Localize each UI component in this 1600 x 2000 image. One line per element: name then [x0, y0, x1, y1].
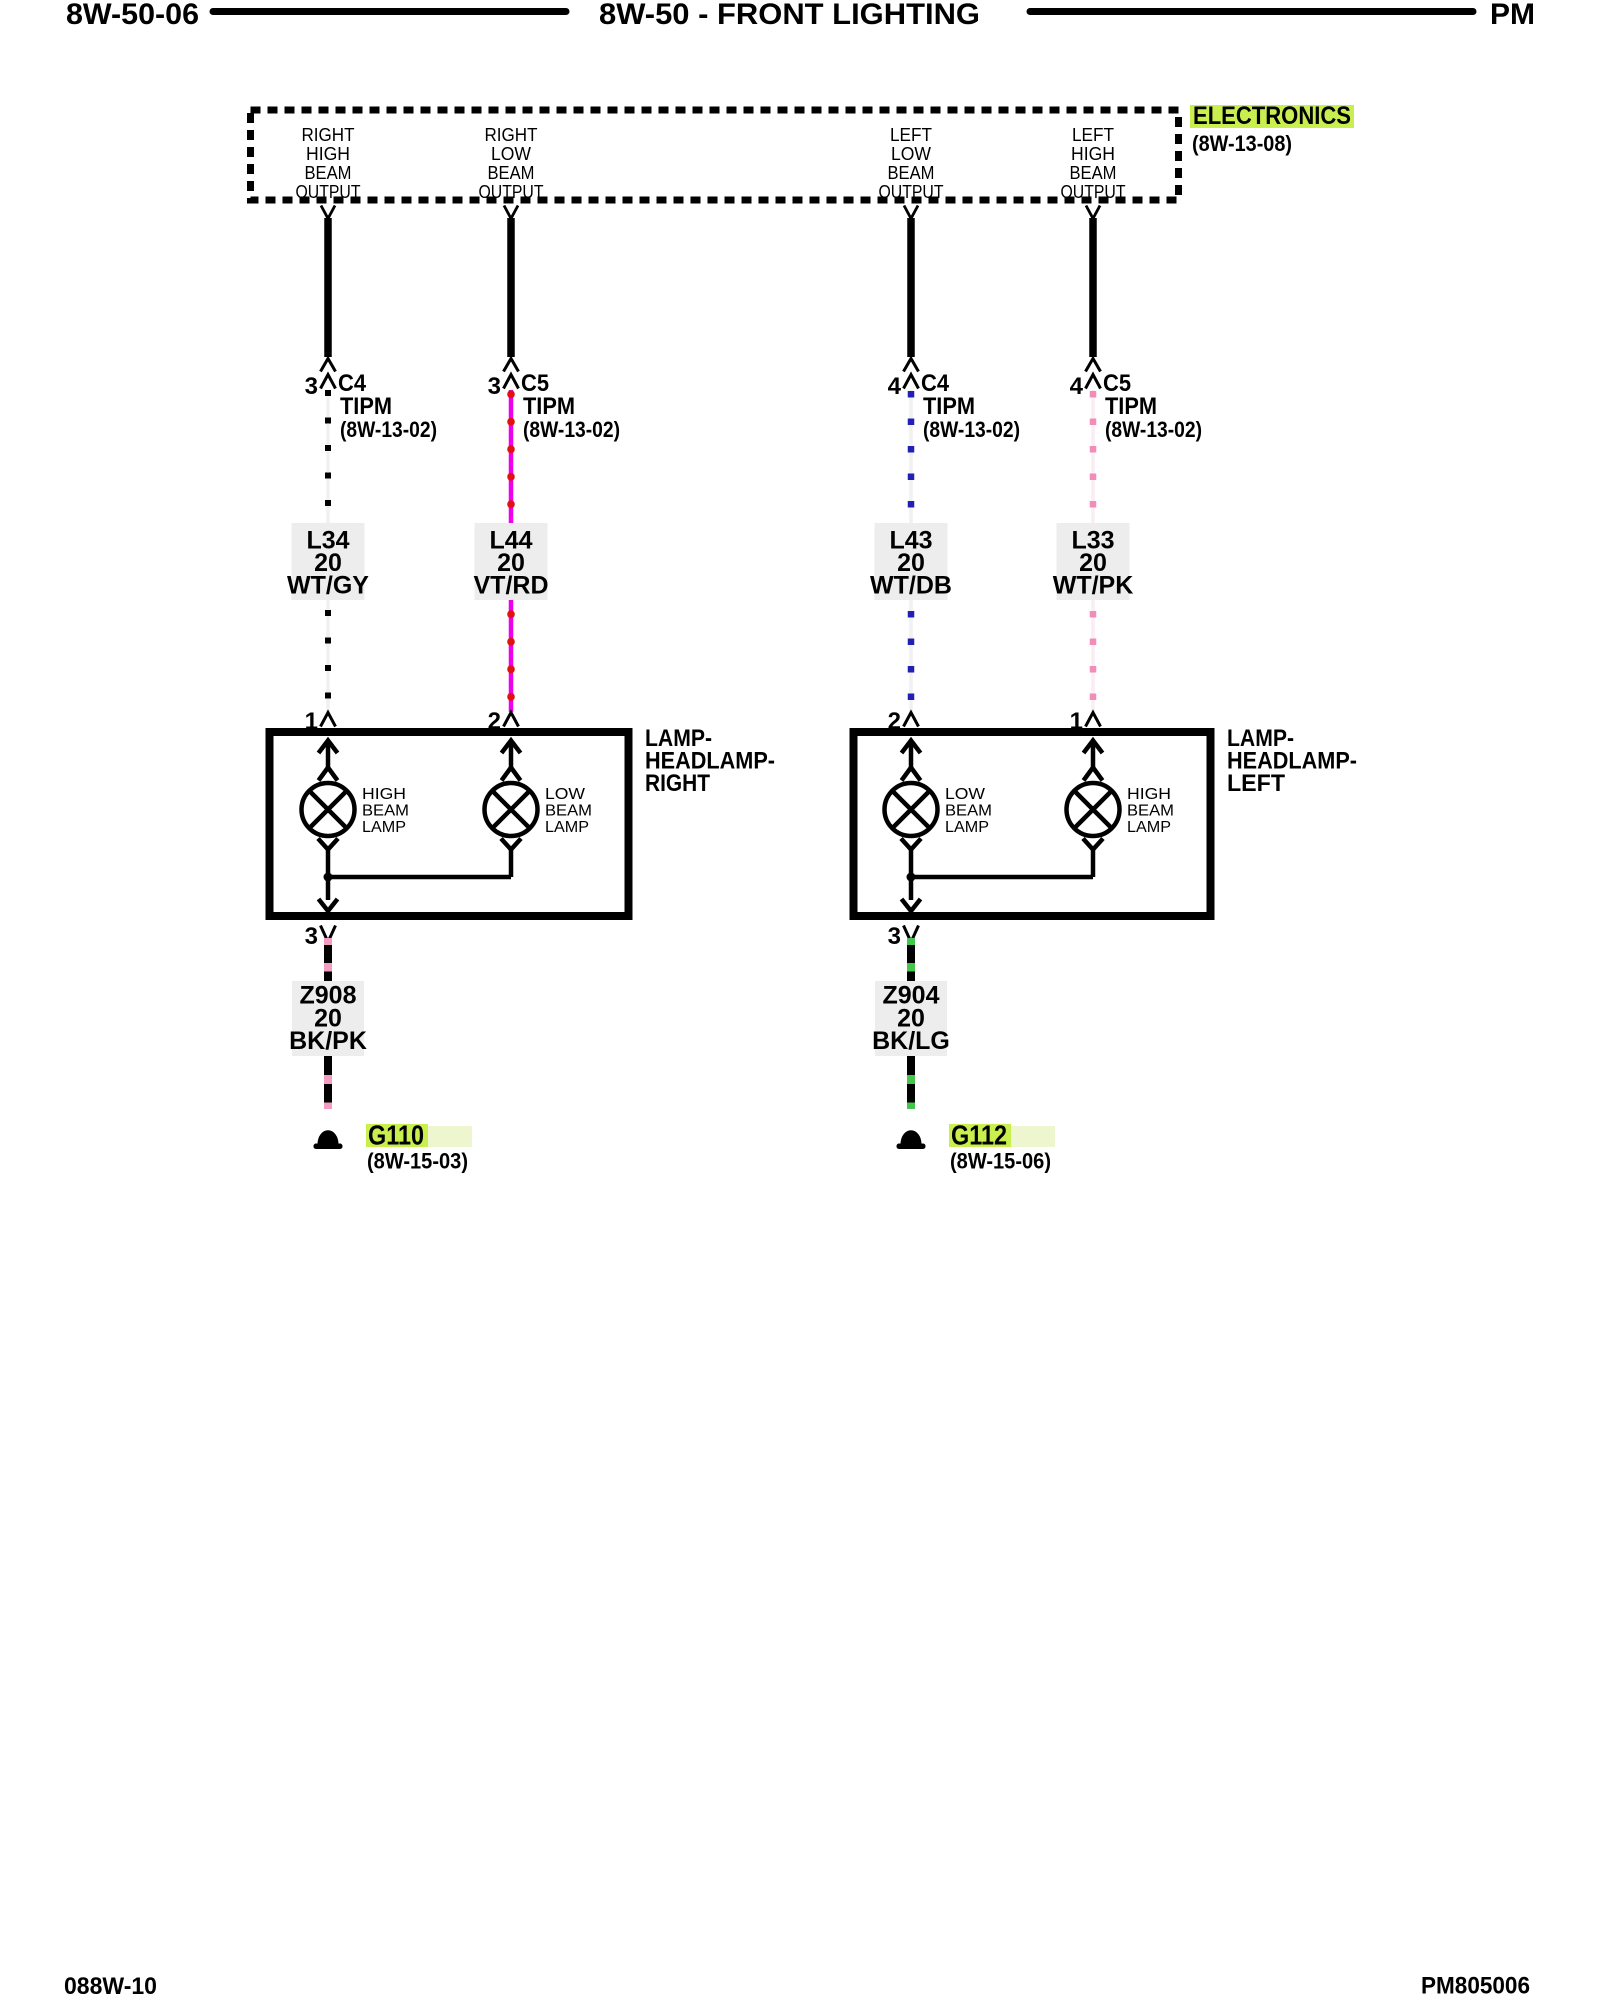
chevron below lamp (W3) [901, 839, 921, 850]
junction node of LAMP-HEADLAMP-RIGHT [324, 873, 333, 882]
lamp text HIGH BEAM LAMP [362, 786, 409, 836]
svg-text:LOW: LOW [491, 144, 531, 164]
wire W4 circuit body (L33) [1091, 390, 1095, 712]
svg-text:LOW: LOW [545, 786, 586, 803]
svg-text:(8W-15-03): (8W-15-03) [367, 1149, 468, 1174]
label ELECTRONICS (highlight) [1190, 102, 1354, 130]
connector out-pin V symbol to ground wire (G110) [321, 926, 336, 943]
svg-text:3: 3 [305, 373, 318, 400]
node W3 output name label [879, 125, 944, 202]
svg-text:WT/PK: WT/PK [1053, 572, 1134, 600]
svg-text:WT/DB: WT/DB [870, 572, 952, 600]
connector TIPM in-pin chevron 1 of W1 [321, 359, 336, 372]
svg-text:BK/LG: BK/LG [872, 1027, 950, 1055]
svg-text:HIGH: HIGH [306, 144, 350, 164]
svg-text:RIGHT: RIGHT [302, 125, 355, 145]
svg-text:OUTPUT: OUTPUT [296, 182, 361, 202]
label LAMP-HEADLAMP-LEFT [1227, 725, 1357, 797]
chevron above lamp (W4) [1084, 768, 1103, 781]
connector TIPM in-pin chevron 2 of W4 [1086, 375, 1101, 389]
svg-text:HIGH: HIGH [1071, 144, 1115, 164]
svg-text:OUTPUT: OUTPUT [479, 182, 544, 202]
svg-text:LEFT: LEFT [1072, 125, 1114, 145]
lamp text LOW BEAM LAMP [945, 786, 992, 836]
svg-text:OUTPUT: OUTPUT [879, 182, 944, 202]
wire internal right drop of LAMP-HEADLAMP-LEFT [1091, 849, 1096, 877]
svg-text:PM805006: PM805006 [1421, 1973, 1530, 2000]
wire W1 thick feed segment [324, 218, 332, 357]
wire name label L43 20 WT/DB [870, 523, 952, 600]
svg-text:LAMP: LAMP [945, 819, 989, 836]
svg-text:LEFT: LEFT [890, 125, 932, 145]
connector TIPM in-pin chevron 2 of W2 [504, 375, 519, 389]
wire internal right drop of LAMP-HEADLAMP-RIGHT [509, 849, 514, 877]
svg-text:3: 3 [888, 923, 901, 950]
svg-text:WT/GY: WT/GY [287, 572, 369, 600]
connector TIPM in-pin chevron 2 of W3 [904, 375, 919, 389]
component box LAMP-HEADLAMP-RIGHT [270, 732, 629, 916]
svg-text:4: 4 [888, 373, 902, 400]
svg-text:BEAM: BEAM [945, 803, 992, 820]
arrow down to ground pin of LAMP-HEADLAMP-RIGHT [319, 899, 338, 911]
wire W2 thick feed segment [507, 218, 515, 357]
component box LAMP-HEADLAMP-LEFT [854, 732, 1211, 916]
svg-text:RIGHT: RIGHT [645, 770, 710, 797]
svg-text:TIPM: TIPM [923, 393, 975, 420]
label G110 (highlight) [366, 1120, 472, 1151]
lamp symbol HIGH BEAM LAMP [1067, 783, 1120, 836]
lamp text LOW BEAM LAMP [545, 786, 592, 836]
wire internal horizontal tie of LAMP-HEADLAMP-LEFT [911, 875, 1093, 880]
svg-text:BEAM: BEAM [1070, 163, 1117, 183]
svg-text:4: 4 [1070, 373, 1084, 400]
svg-text:(8W-13-02): (8W-13-02) [523, 417, 620, 442]
connector out-pin V symbol to ground wire (G112) [904, 926, 919, 943]
wire name label L33 20 WT/PK [1053, 523, 1134, 600]
svg-text:RIGHT: RIGHT [485, 125, 538, 145]
svg-text:BEAM: BEAM [362, 803, 409, 820]
svg-text:G110: G110 [368, 1120, 424, 1151]
junction node of LAMP-HEADLAMP-LEFT [907, 873, 916, 882]
svg-text:TIPM: TIPM [1105, 393, 1157, 420]
arrow up into pin inside box (W2) [502, 740, 521, 770]
connector lamp in-pin chevron of W2 [504, 713, 519, 727]
connector out-pin Y symbol of W3 [904, 206, 918, 219]
ground symbol G112 [897, 1130, 926, 1149]
svg-text:(8W-15-06): (8W-15-06) [950, 1149, 1051, 1174]
lamp text HIGH BEAM LAMP [1127, 786, 1174, 836]
chevron above lamp (W2) [502, 768, 521, 781]
wire name label L34 20 WT/GY [287, 523, 369, 600]
connector out-pin Y symbol of W1 [321, 206, 335, 219]
svg-text:LOW: LOW [891, 144, 931, 164]
lamp symbol LOW BEAM LAMP [885, 783, 938, 836]
chevron above lamp (W1) [319, 768, 338, 781]
svg-text:BEAM: BEAM [1127, 803, 1174, 820]
svg-text:G112: G112 [951, 1120, 1007, 1151]
wire W1 circuit body (L34) [326, 390, 330, 712]
chevron above lamp (W3) [902, 768, 921, 781]
svg-text:BK/PK: BK/PK [289, 1027, 367, 1055]
svg-text:ELECTRONICS: ELECTRONICS [1193, 102, 1351, 130]
svg-text:OUTPUT: OUTPUT [1061, 182, 1126, 202]
label G112 (highlight) [949, 1120, 1055, 1151]
header rule right [1030, 8, 1473, 15]
wire Z904 ground lower segment [907, 1056, 915, 1109]
svg-text:VT/RD: VT/RD [474, 572, 549, 600]
svg-text:LAMP: LAMP [1127, 819, 1171, 836]
svg-text:8W-50-06: 8W-50-06 [66, 0, 199, 31]
lamp symbol LOW BEAM LAMP [485, 783, 538, 836]
svg-text:3: 3 [488, 373, 501, 400]
wire W2 circuit body (L44) [509, 390, 514, 712]
arrow up into pin inside box (W1) [319, 740, 338, 770]
svg-text:088W-10: 088W-10 [64, 1973, 157, 2000]
svg-text:LAMP: LAMP [545, 819, 589, 836]
svg-text:LEFT: LEFT [1227, 770, 1285, 797]
wire name label Z904 20 BK/LG [872, 981, 950, 1056]
svg-text:3: 3 [305, 923, 318, 950]
svg-text:BEAM: BEAM [305, 163, 352, 183]
chevron below lamp (W1) [318, 839, 338, 850]
chevron below lamp (W4) [1083, 839, 1103, 850]
wire W4 thick feed segment [1089, 218, 1097, 357]
node W1 output name label [296, 125, 361, 202]
node W2 output name label [479, 125, 544, 202]
chevron below lamp (W2) [501, 839, 521, 850]
svg-text:TIPM: TIPM [523, 393, 575, 420]
wire internal left drop of LAMP-HEADLAMP-RIGHT [326, 849, 331, 900]
svg-text:LAMP: LAMP [362, 819, 406, 836]
wire W3 circuit body (L43) [909, 390, 913, 712]
arrow down to ground pin of LAMP-HEADLAMP-LEFT [902, 899, 921, 911]
svg-text:TIPM: TIPM [340, 393, 392, 420]
svg-text:BEAM: BEAM [488, 163, 535, 183]
arrow up into pin inside box (W3) [902, 740, 921, 770]
svg-text:(8W-13-02): (8W-13-02) [923, 417, 1020, 442]
wire name label Z908 20 BK/PK [289, 981, 367, 1056]
svg-text:PM: PM [1490, 0, 1535, 31]
svg-text:(8W-13-02): (8W-13-02) [340, 417, 437, 442]
label LAMP-HEADLAMP-RIGHT [645, 725, 775, 797]
connector out-pin Y symbol of W2 [504, 206, 518, 219]
svg-text:LOW: LOW [945, 786, 986, 803]
connector TIPM in-pin chevron 1 of W2 [504, 359, 519, 372]
wire Z908 ground upper segment [324, 938, 332, 982]
connector out-pin Y symbol of W4 [1086, 206, 1100, 219]
lamp symbol HIGH BEAM LAMP [302, 783, 355, 836]
connector lamp in-pin chevron of W3 [904, 713, 919, 727]
connector TIPM in-pin chevron 1 of W4 [1086, 359, 1101, 372]
arrow up into pin inside box (W4) [1084, 740, 1103, 770]
header rule left [213, 8, 566, 15]
svg-text:BEAM: BEAM [888, 163, 935, 183]
wire internal horizontal tie of LAMP-HEADLAMP-RIGHT [328, 875, 511, 880]
connector TIPM in-pin chevron 2 of W1 [321, 375, 336, 389]
svg-text:(8W-13-08): (8W-13-08) [1192, 131, 1292, 156]
connector TIPM in-pin chevron 1 of W3 [904, 359, 919, 372]
svg-text:(8W-13-02): (8W-13-02) [1105, 417, 1202, 442]
svg-text:HIGH: HIGH [362, 786, 406, 803]
node W4 output name label [1061, 125, 1126, 202]
wire W3 thick feed segment [907, 218, 915, 357]
svg-text:HIGH: HIGH [1127, 786, 1171, 803]
module ELECTRONICS dashed box [251, 110, 1179, 200]
ground symbol G110 [314, 1130, 343, 1149]
wire internal left drop of LAMP-HEADLAMP-LEFT [909, 849, 914, 900]
svg-text:BEAM: BEAM [545, 803, 592, 820]
connector lamp in-pin chevron of W4 [1086, 713, 1101, 727]
connector lamp in-pin chevron of W1 [321, 713, 336, 727]
wire name label L44 20 VT/RD [474, 523, 549, 600]
wire Z904 ground upper segment [907, 938, 915, 982]
wire Z908 ground lower segment [324, 1056, 332, 1109]
svg-text:8W-50 - FRONT LIGHTING: 8W-50 - FRONT LIGHTING [599, 0, 980, 31]
